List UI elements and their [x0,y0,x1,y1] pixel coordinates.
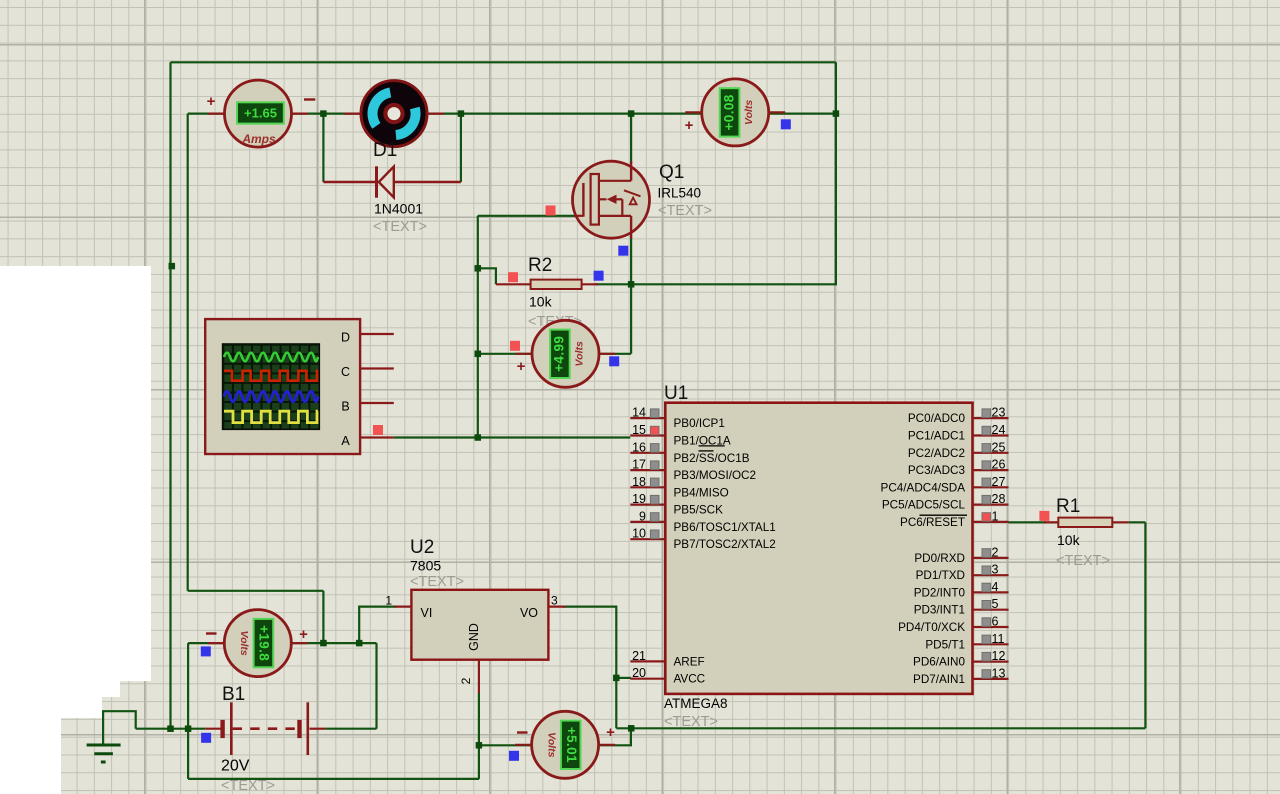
svg-text:28: 28 [992,492,1006,506]
wire Q1 drain up [630,114,632,163]
U1 pin 4 PD2/INT0 [914,580,1009,600]
svg-text:U1: U1 [664,383,688,404]
junction dot 14 [613,675,620,682]
svg-text:<TEXT>: <TEXT> [373,219,427,235]
svg-text:+: + [606,724,615,741]
svg-text:Volts: Volts [545,732,557,757]
svg-text:+19.8: +19.8 [257,625,272,661]
wire voltmeter2 right [598,353,632,355]
svg-text:9: 9 [639,509,646,523]
junction dot 10 [320,640,327,647]
U1 pin 6 PD4/T0/XCK [898,615,1008,635]
VM4 minus label [206,632,217,634]
U1 OC1A underline [699,445,725,447]
blue square B1 left [201,733,211,743]
svg-text:Q1: Q1 [659,162,684,183]
svg-text:1: 1 [992,509,999,523]
blue square VM4 left [201,646,211,656]
svg-text:PC6/RESET: PC6/RESET [900,516,965,529]
svg-text:20V: 20V [221,758,250,775]
svg-text:GND: GND [467,623,481,651]
resistor R1 10k [1044,518,1129,527]
U1 pin 28 PC5/ADC5/SCL [882,492,1009,512]
svg-text:PD2/INT0: PD2/INT0 [914,586,966,599]
svg-text:3: 3 [551,594,558,608]
voltmeter VM3 +4.99 Volts [516,320,616,387]
wire scope A to U1 pin15 [394,436,631,438]
svg-text:4: 4 [992,580,999,594]
wire voltmeter3 minus [188,642,226,644]
blue square R2 right [594,271,604,281]
wire battery row left [136,728,206,730]
junction dot 3 [458,110,465,117]
svg-text:<TEXT>: <TEXT> [1056,553,1110,569]
svg-text:PD7/AIN1: PD7/AIN1 [913,673,965,686]
svg-text:10k: 10k [1057,532,1081,548]
svg-text:2: 2 [992,545,999,559]
U1 SCL RESET overline [920,514,968,516]
svg-text:PC3/ADC3: PC3/ADC3 [908,464,965,477]
VM5 minus label [517,731,528,733]
svg-text:11: 11 [992,632,1005,646]
blue square VM3 right [609,356,619,366]
svg-text:PC1/ADC1: PC1/ADC1 [908,430,965,443]
voltmeter VM2 +0.08 Volts [685,79,785,146]
svg-text:7805: 7805 [410,558,441,574]
svg-text:PB0/ICP1: PB0/ICP1 [674,417,725,430]
wire Q1 source down [630,238,632,354]
U1 pin 9 PB6/TOSC1/XTAL1 [630,509,775,534]
U1 pin 2 PD0/RXD [914,545,1008,565]
junction dot 5 [833,110,840,117]
wire battery row right [325,728,376,730]
svg-text:10k: 10k [529,294,553,310]
svg-text:PD1/TXD: PD1/TXD [916,569,965,582]
junction dot 16 [476,742,483,749]
svg-text:VI: VI [421,606,433,620]
junction dot 13 [185,725,192,732]
svg-text:A: A [341,434,350,448]
svg-text:19: 19 [632,492,646,506]
junction dot 12 [167,725,174,732]
svg-text:2: 2 [459,677,473,684]
U2 pin 2 stub [478,660,480,693]
scope channel D pin [360,333,394,335]
svg-text:IRL540: IRL540 [658,186,702,201]
wire right loop down [631,62,836,284]
svg-text:R2: R2 [528,255,552,276]
red square R2 left [508,272,518,282]
U1 pin 14 PB0/ICP1 [630,406,725,431]
svg-text:Volts: Volts [573,341,585,366]
svg-text:15: 15 [632,423,646,437]
svg-text:23: 23 [992,406,1006,420]
svg-text:20: 20 [632,666,646,680]
svg-text:Volts: Volts [743,100,755,125]
svg-text:<TEXT>: <TEXT> [658,203,712,219]
svg-text:D1: D1 [373,140,397,161]
scope channel B pin [360,402,394,404]
ground symbol [87,745,121,762]
svg-text:PD3/INT1: PD3/INT1 [914,604,965,617]
svg-text:PD5/T1: PD5/T1 [925,638,965,651]
red square Q1 gate [546,206,556,216]
svg-text:PB5/SCK: PB5/SCK [674,504,724,517]
svg-text:12: 12 [992,649,1006,663]
ammeter minus label [304,98,315,100]
wire gate vertical [477,216,479,438]
transistor Q1 IRL540 [573,161,650,238]
U1 pin 26 PC3/ADC3 [908,458,1009,478]
U1 pin 19 PB5/SCK [630,492,723,516]
svg-text:PB2/SS/OC1B: PB2/SS/OC1B [674,452,750,465]
svg-text:R1: R1 [1056,496,1080,517]
svg-text:PB4/MISO: PB4/MISO [674,486,729,499]
U1 pin 18 PB4/MISO [630,475,728,500]
junction dot 4 [628,110,635,117]
wire U2 GND down [478,693,480,779]
svg-text:26: 26 [992,458,1006,472]
svg-text:AVCC: AVCC [674,673,706,686]
svg-text:+: + [207,93,216,110]
svg-text:PD0/RXD: PD0/RXD [914,552,965,565]
junction dot 7 [475,351,482,358]
wire R2 left jog [478,268,496,284]
svg-text:B: B [341,400,349,414]
red square U1 pin1 right [1039,511,1049,521]
svg-text:+5.01: +5.01 [564,727,579,763]
svg-text:PC4/ADC4/SDA: PC4/ADC4/SDA [881,481,966,494]
svg-text:PC0/ADC0: PC0/ADC0 [908,412,966,425]
svg-text:1: 1 [385,594,392,608]
U1 pin 13 PD7/AIN1 [913,666,1008,686]
U1 pin 16 PB2/SS/OC1B [630,440,749,465]
junction dot 6 [475,265,482,272]
junction dot 15 [628,725,635,732]
red square scope A [373,425,383,435]
scope channel A pin [360,436,394,438]
svg-text:PD4/T0/XCK: PD4/T0/XCK [898,621,965,634]
wire B horizontal [188,590,324,592]
wire U2 pin1 branch [359,607,396,644]
svg-text:<TEXT>: <TEXT> [221,778,275,794]
svg-text:+: + [517,358,526,375]
svg-text:17: 17 [632,458,646,472]
svg-text:C: C [341,365,350,379]
svg-text:25: 25 [992,440,1006,454]
wire ground jog [103,711,136,745]
wire gate row [478,215,575,217]
svg-text:D: D [341,331,350,345]
svg-text:18: 18 [632,475,646,489]
svg-text:PB7/TOSC2/XTAL2: PB7/TOSC2/XTAL2 [674,538,776,551]
U1 pin 5 PD3/INT1 [914,597,1009,617]
svg-text:PC2/ADC2: PC2/ADC2 [908,447,965,460]
wire R1 right vertical [1144,522,1146,728]
U1 pin 3 PD1/TXD [916,563,1009,583]
wire U2 out to +5V node [563,607,616,729]
svg-text:Volts: Volts [238,630,250,655]
wire U1 pin1 to R1 [1008,521,1046,523]
regulator U2 7805 body [411,590,548,660]
wire motor row [188,112,836,114]
blue square VM5 left [509,751,519,761]
junction dot 2 [320,110,327,117]
motor M1 [344,81,444,147]
svg-text:5: 5 [992,597,999,611]
wire bottom rail [188,778,479,780]
wire voltmeter4 right up [598,728,631,745]
svg-text:14: 14 [632,406,646,420]
wire voltmeter3 plus row [290,642,376,644]
U1 pin 17 PB3/MOSI/OC2 [630,458,756,483]
wire R1 right stub link [1129,521,1146,523]
oscilloscope display block [205,319,360,454]
svg-text:21: 21 [632,649,646,663]
U1 pin 24 PC1/ADC1 [908,423,1009,443]
svg-text:PB3/MOSI/OC2: PB3/MOSI/OC2 [674,469,757,482]
svg-text:<TEXT>: <TEXT> [664,714,718,730]
svg-text:AREF: AREF [674,655,705,668]
U1 pin 1 PC6/RESET [900,509,1008,529]
U1 pin 23 PC0/ADC0 [908,406,1009,426]
U1 pin 12 PD6/AIN0 [913,649,1008,669]
diode D1 1N4001 symbol [323,166,461,197]
U2 pin 3 stub [548,605,565,607]
U1 SS overline [699,450,714,452]
svg-text:+0.08: +0.08 [721,94,736,130]
svg-text:+4.99: +4.99 [552,336,567,372]
resistor R2 10k [496,280,598,289]
wire +5V long rail [616,727,1145,729]
svg-text:<TEXT>: <TEXT> [410,574,464,590]
svg-text:PC5/ADC5/SCL: PC5/ADC5/SCL [882,499,966,512]
wire B to voltmeter row [322,591,324,643]
svg-text:13: 13 [992,666,1006,680]
U1 pin 25 PC2/ADC2 [908,440,1009,460]
blue square VM2 right [781,119,791,129]
junction dot 9 [628,281,635,288]
U1 pin 20 AVCC [630,666,705,686]
svg-text:10: 10 [632,527,646,541]
svg-text:24: 24 [992,423,1006,437]
junction dot 8 [475,434,482,441]
U1 ATMEGA8 body [665,403,972,694]
wire diode left vertical [322,114,324,182]
voltmeter VM4 +19.8 Volts [208,610,308,677]
wire ammeter branch B down [187,114,189,591]
scope channel C pin [360,367,394,369]
svg-text:3: 3 [992,563,999,577]
ammeter AM1 +1.65 Amps [208,80,308,147]
svg-text:Amps: Amps [241,132,276,146]
svg-text:+: + [685,117,694,134]
svg-text:B1: B1 [222,684,245,705]
wire top rail [171,61,836,63]
svg-text:+1.65: +1.65 [244,105,277,120]
wire voltmeter2 left [478,353,534,355]
junction dot 1 [169,263,176,270]
U1 pin 27 PC4/ADC4/SDA [881,475,1009,495]
svg-text:PB6/TOSC1/XTAL1: PB6/TOSC1/XTAL1 [674,521,776,534]
U1 pin 21 AREF [630,649,704,669]
wire left vertical A [169,62,171,728]
wire diode right vertical [460,114,462,182]
U2 pin 1 stub [395,605,412,607]
wire battery plus up [375,643,377,729]
svg-text:27: 27 [992,475,1006,489]
wire voltmeter4 left [479,744,532,746]
svg-text:PD6/AIN0: PD6/AIN0 [913,656,965,669]
blue square Q1 source [618,246,628,256]
svg-text:16: 16 [632,440,646,454]
voltmeter VM5 +5.01 Volts [515,711,615,778]
wire AVCC branch [616,677,631,679]
wire voltmeter3 down left [187,643,189,779]
svg-text:1N4001: 1N4001 [374,201,423,217]
U1 pin 15 PB1/OC1A [630,423,731,448]
U1 pin 11 PD5/T1 [925,632,1008,652]
wire R2 right to node [595,283,631,285]
svg-text:VO: VO [520,606,538,620]
battery B1 20V [205,702,325,755]
svg-text:+: + [299,626,308,643]
svg-text:6: 6 [992,615,999,629]
junction dot 11 [356,640,363,647]
svg-text:ATMEGA8: ATMEGA8 [664,696,728,711]
svg-text:U2: U2 [410,537,434,558]
red square VM3 left [510,341,520,351]
U1 pin 10 PB7/TOSC2/XTAL2 [630,527,775,552]
